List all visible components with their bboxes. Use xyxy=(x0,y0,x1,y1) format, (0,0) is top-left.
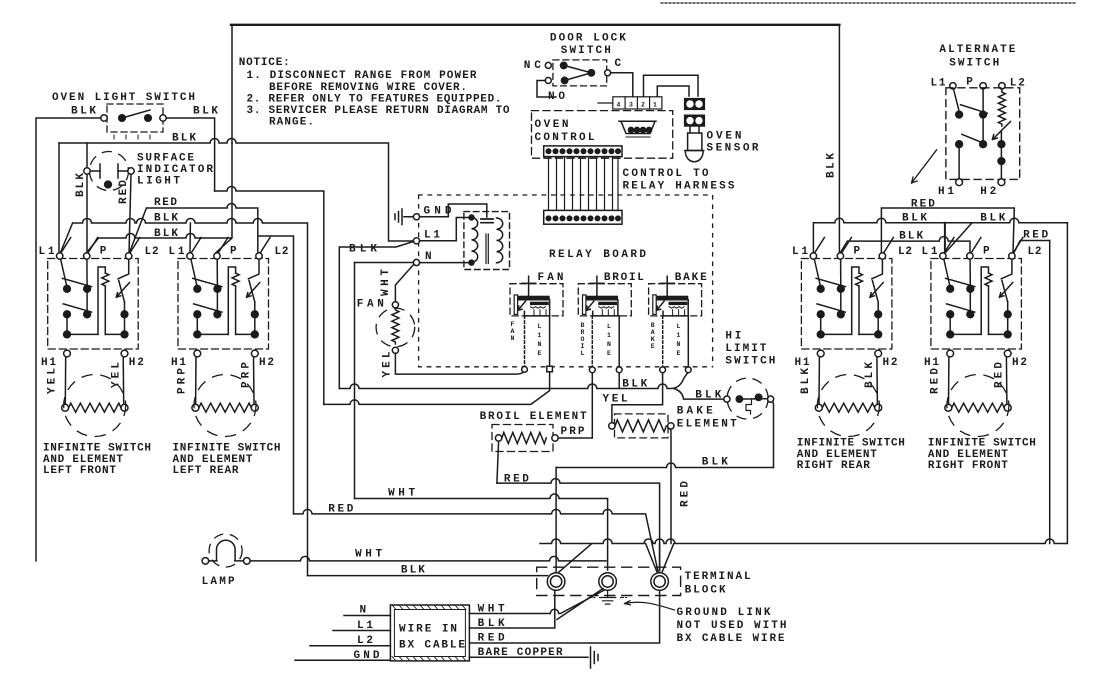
svg-text:1: 1 xyxy=(677,332,681,339)
svg-text:BLK: BLK xyxy=(702,457,728,469)
control to relay harness connector bar 1 xyxy=(544,146,622,157)
svg-text:L1: L1 xyxy=(931,78,946,90)
svg-text:SWITCH: SWITCH xyxy=(725,356,775,368)
wire: C terminal to connector xyxy=(611,73,633,97)
svg-text:BLK: BLK xyxy=(864,362,876,388)
svg-text:ELEMENT: ELEMENT xyxy=(677,419,737,431)
wire: broil element right to broil relay xyxy=(558,373,592,438)
svg-text:L1: L1 xyxy=(424,230,440,242)
pointer arrow to alternate switch xyxy=(912,150,937,183)
svg-text:LIMIT: LIMIT xyxy=(725,343,766,355)
svg-text:WHT: WHT xyxy=(380,269,392,296)
ground link callout arrow xyxy=(625,601,675,610)
wire: BLK bus 2 y=238 xyxy=(88,234,232,252)
svg-text:NOTICE:: NOTICE: xyxy=(239,57,290,69)
svg-text:B: B xyxy=(581,322,585,329)
svg-text:N: N xyxy=(425,251,432,263)
svg-text:RED: RED xyxy=(930,368,942,394)
svg-text:O: O xyxy=(581,336,585,343)
infinite switch and element left front xyxy=(48,238,140,437)
board input L1 xyxy=(413,238,419,244)
svg-text:K: K xyxy=(651,336,655,343)
svg-text:RED: RED xyxy=(994,362,1006,388)
svg-text:SWITCH: SWITCH xyxy=(561,45,611,57)
connector plug 4-pin xyxy=(598,97,662,109)
svg-text:L2: L2 xyxy=(145,246,159,258)
svg-text:E: E xyxy=(538,350,542,357)
svg-text:CONTROL TO: CONTROL TO xyxy=(623,168,709,180)
relay board dashed box xyxy=(419,195,713,367)
svg-text:1: 1 xyxy=(607,332,611,339)
svg-text:C: C xyxy=(615,58,622,70)
wire: NO hook xyxy=(537,81,556,98)
svg-text:INFINITE SWITCH: INFINITE SWITCH xyxy=(797,437,905,449)
svg-text:3. SERVICER PLEASE RETURN DIAG: 3. SERVICER PLEASE RETURN DIAGRAM TO xyxy=(247,105,510,117)
svg-text:BAKE: BAKE xyxy=(677,406,713,418)
svg-text:OVEN: OVEN xyxy=(535,119,569,131)
svg-text:P: P xyxy=(854,246,861,258)
svg-text:L1: L1 xyxy=(169,246,185,258)
svg-text:P: P xyxy=(983,246,990,258)
ground symbol under middle terminal xyxy=(600,590,616,604)
wire: left border from oven light switch down to lamp xyxy=(36,118,101,561)
svg-text:H2: H2 xyxy=(259,357,274,369)
svg-text:PRP: PRP xyxy=(561,426,585,438)
svg-text:P: P xyxy=(966,77,973,89)
svg-text:BLK: BLK xyxy=(75,173,87,197)
svg-text:RED: RED xyxy=(680,481,692,507)
svg-text:N: N xyxy=(538,341,542,348)
svg-text:L: L xyxy=(581,350,585,357)
wire: indicator left pin up to BLK y=143 and down to P1 xyxy=(86,143,88,253)
svg-text:R: R xyxy=(581,329,585,336)
svg-text:H1: H1 xyxy=(41,357,56,369)
svg-text:YEL: YEL xyxy=(382,351,394,377)
wire: BLK feed to L1 right-front xyxy=(944,223,946,253)
svg-text:SWITCH: SWITCH xyxy=(949,58,999,70)
svg-text:BLK: BLK xyxy=(800,368,812,394)
svg-text:INDICATOR: INDICATOR xyxy=(137,164,213,176)
wire: BLK bus y=222.8 right side xyxy=(813,218,1067,253)
oven sensor xyxy=(685,99,705,162)
svg-text:OVEN LIGHT SWITCH: OVEN LIGHT SWITCH xyxy=(52,92,195,104)
svg-text:YEL: YEL xyxy=(603,394,628,406)
svg-text:L: L xyxy=(677,323,681,330)
wire: indicator right pin down to L2 of switch 1 xyxy=(129,174,131,253)
control to relay harness connector bar 2 xyxy=(544,210,622,224)
wire: L1 feed of switch 2 from BLK bus xyxy=(189,223,191,253)
svg-text:YEL: YEL xyxy=(47,368,59,394)
svg-text:A: A xyxy=(651,329,655,336)
svg-text:HI: HI xyxy=(725,331,741,343)
svg-text:H2: H2 xyxy=(129,357,144,369)
svg-text:BLK: BLK xyxy=(826,153,838,178)
wire: broil element left to RED line xyxy=(497,441,499,483)
svg-text:H1: H1 xyxy=(795,357,810,369)
svg-text:RED: RED xyxy=(118,180,130,204)
wire: RED line y=483 from broil to right terminal xyxy=(497,479,660,570)
svg-text:P: P xyxy=(100,246,107,258)
svg-text:E: E xyxy=(607,350,611,357)
wire: bake element right down to bottom line (RED) xyxy=(670,429,672,543)
svg-text:H2: H2 xyxy=(883,357,898,369)
svg-text:L: L xyxy=(607,323,611,330)
ground link diagonal xyxy=(557,589,603,620)
svg-text:PRP: PRP xyxy=(241,362,253,388)
funnel wires into right terminal xyxy=(646,544,674,572)
svg-text:BAKE: BAKE xyxy=(675,272,707,284)
svg-text:RELAY HARNESS: RELAY HARNESS xyxy=(623,181,735,193)
infinite switch and element right rear xyxy=(801,238,893,437)
svg-text:SURFACE: SURFACE xyxy=(137,152,194,164)
svg-text:RANGE.: RANGE. xyxy=(269,117,314,129)
svg-text:LEFT REAR: LEFT REAR xyxy=(173,465,239,477)
svg-text:GROUND LINK: GROUND LINK xyxy=(677,607,771,619)
svg-text:PRP: PRP xyxy=(177,368,189,394)
transformer T1 xyxy=(420,204,510,270)
svg-text:NOT USED WITH: NOT USED WITH xyxy=(677,620,787,632)
svg-text:TERMINAL: TERMINAL xyxy=(685,571,751,583)
svg-text:OVEN: OVEN xyxy=(707,130,742,142)
svg-text:BLOCK: BLOCK xyxy=(685,585,726,597)
svg-text:WHT: WHT xyxy=(355,549,382,561)
svg-text:FAN: FAN xyxy=(538,272,564,284)
svg-text:2. REFER ONLY TO FEATURES EQUI: 2. REFER ONLY TO FEATURES EQUIPPED. xyxy=(247,94,502,106)
wire: diagonal into left terminal xyxy=(559,544,592,573)
wire: fan relay line-side down to feed line xyxy=(324,372,550,405)
svg-text:A: A xyxy=(511,328,515,335)
wire: oven light switch to vertical A xyxy=(166,118,214,191)
svg-text:BLK: BLK xyxy=(71,106,96,118)
svg-text:L1: L1 xyxy=(922,246,938,258)
svg-text:1: 1 xyxy=(538,332,542,339)
svg-text:AND ELEMENT: AND ELEMENT xyxy=(43,454,123,466)
svg-text:ALTERNATE: ALTERNATE xyxy=(939,44,1015,56)
wire: WHT vertical from N down to WHT line xyxy=(354,263,356,499)
svg-text:1: 1 xyxy=(653,102,657,109)
svg-text:INFINITE SWITCH: INFINITE SWITCH xyxy=(928,437,1036,449)
oven control box xyxy=(532,111,673,159)
infinite switch and element right front xyxy=(931,238,1023,437)
svg-text:LAMP: LAMP xyxy=(202,576,235,588)
relay FAN xyxy=(510,276,563,316)
svg-text:F: F xyxy=(511,321,515,328)
svg-text:INFINITE SWITCH: INFINITE SWITCH xyxy=(43,442,151,454)
svg-text:RELAY BOARD: RELAY BOARD xyxy=(549,249,646,261)
board input: ground symbol xyxy=(395,209,413,225)
wire: N diagonal to fan motor xyxy=(395,265,413,302)
board input GND xyxy=(413,214,419,220)
wire: L1 feed of left-front switch xyxy=(58,143,60,253)
svg-text:E: E xyxy=(651,343,655,350)
svg-text:L1: L1 xyxy=(39,246,55,258)
svg-text:L: L xyxy=(538,323,542,330)
harness ribbon wires xyxy=(549,157,619,211)
top border dotted artifact line xyxy=(661,2,1075,4)
svg-text:1. DISCONNECT RANGE FROM POWER: 1. DISCONNECT RANGE FROM POWER xyxy=(247,70,477,82)
svg-text:P: P xyxy=(230,246,237,258)
svg-text:YEL: YEL xyxy=(111,362,123,388)
svg-text:RIGHT REAR: RIGHT REAR xyxy=(797,460,870,472)
svg-text:LEFT FRONT: LEFT FRONT xyxy=(43,465,116,477)
wire: connector to oven sensor plug 2 xyxy=(657,86,689,97)
svg-text:WHT: WHT xyxy=(388,488,415,500)
oven control connector (trapezoid) xyxy=(619,121,656,137)
svg-text:BX CABLE WIRE: BX CABLE WIRE xyxy=(677,633,785,645)
wire: fan motor to fan relay (YEL) xyxy=(395,353,524,374)
svg-text:N: N xyxy=(677,341,681,348)
frame: top border of diagram xyxy=(231,25,233,143)
wire: BLK down from y=467.5 to left terminal xyxy=(555,468,557,573)
wire: BLK bus y=223 xyxy=(61,219,308,576)
svg-text:H2: H2 xyxy=(1012,357,1027,369)
svg-text:L2: L2 xyxy=(1028,246,1042,258)
wire: hi-limit right to bake BLK line xyxy=(772,402,775,468)
svg-text:L2: L2 xyxy=(275,246,289,258)
svg-text:4: 4 xyxy=(617,102,621,109)
svg-text:L2: L2 xyxy=(898,246,912,258)
wire: horizontal y=191 to x=323.8 xyxy=(215,187,324,405)
svg-text:DOOR LOCK: DOOR LOCK xyxy=(550,33,626,45)
svg-text:CONTROL: CONTROL xyxy=(535,132,595,144)
svg-text:AND ELEMENT: AND ELEMENT xyxy=(173,454,253,466)
svg-text:L1: L1 xyxy=(792,246,808,258)
svg-text:BLK: BLK xyxy=(349,244,377,256)
svg-text:B: B xyxy=(651,322,655,329)
wire: RED bus y=208 xyxy=(130,204,294,514)
wire: RED bus y=208 right side xyxy=(881,208,1014,253)
svg-text:NC: NC xyxy=(524,60,541,72)
svg-text:H1: H1 xyxy=(171,357,186,369)
wire: BLK vertical from top border to P of right-rear switch xyxy=(838,25,840,253)
svg-text:RED: RED xyxy=(1023,230,1048,242)
wire: connector to oven sensor plug xyxy=(644,75,699,97)
svg-text:2: 2 xyxy=(641,102,645,109)
svg-text:N: N xyxy=(511,335,515,342)
svg-text:RIGHT FRONT: RIGHT FRONT xyxy=(928,460,1008,472)
svg-text:BEFORE REMOVING WIRE COVER.: BEFORE REMOVING WIRE COVER. xyxy=(269,82,467,94)
svg-text:FAN: FAN xyxy=(357,299,384,311)
ground symbol at bare copper xyxy=(591,647,599,668)
svg-text:I: I xyxy=(581,343,585,350)
svg-text:BLK: BLK xyxy=(193,106,218,118)
svg-text:3: 3 xyxy=(629,102,633,109)
wire: RED2 vertical from right switches xyxy=(1049,241,1051,544)
svg-text:INFINITE SWITCH: INFINITE SWITCH xyxy=(173,442,281,454)
svg-text:LIGHT: LIGHT xyxy=(137,176,180,188)
svg-text:AND ELEMENT: AND ELEMENT xyxy=(928,449,1008,461)
svg-text:N: N xyxy=(607,341,611,348)
svg-text:N: N xyxy=(360,605,367,617)
svg-text:SENSOR: SENSOR xyxy=(707,142,759,154)
svg-text:H1: H1 xyxy=(924,357,939,369)
wire: line y=543.5 to right switches xyxy=(540,223,1067,544)
svg-text:RED: RED xyxy=(154,197,177,209)
svg-text:H2: H2 xyxy=(980,186,996,198)
relay BROIL xyxy=(578,276,631,316)
infinite switch and element left rear xyxy=(178,238,270,437)
wire: NOTICE box edge continues down to P of switch 2 xyxy=(216,143,232,253)
svg-text:BROIL: BROIL xyxy=(604,272,644,284)
svg-text:E: E xyxy=(677,350,681,357)
board input N xyxy=(413,259,419,265)
svg-text:H1: H1 xyxy=(938,186,954,198)
svg-text:BROIL ELEMENT: BROIL ELEMENT xyxy=(480,411,587,423)
wire: diagonal from L1 right-front xyxy=(946,223,971,252)
svg-text:WIRE IN: WIRE IN xyxy=(399,624,457,636)
wire: N to WHT vertical xyxy=(355,262,414,264)
wire in BX cable box xyxy=(390,605,469,661)
terminal block xyxy=(537,567,681,595)
svg-text:BLK: BLK xyxy=(401,565,425,577)
svg-text:AND ELEMENT: AND ELEMENT xyxy=(797,449,877,461)
relay BAKE xyxy=(649,276,702,316)
svg-text:BX CABLE: BX CABLE xyxy=(399,640,465,652)
